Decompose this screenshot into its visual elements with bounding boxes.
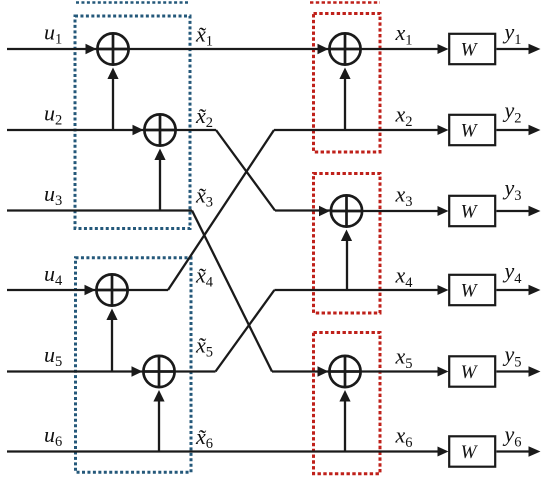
svg-text:W: W [461,121,479,142]
wire row2 W box to output y2 [496,129,530,131]
wire row5 W box to output y5 [496,370,530,372]
svg-text:W: W [461,202,479,223]
up arrowhead riser U4 [153,390,164,402]
up arrowhead riser U3 [106,309,117,321]
wire x~4 diagonal row4 to row2 [168,130,274,290]
svg-text:W: W [461,40,479,61]
riser row2 to XOR U1 [112,79,114,130]
channel box W4 [449,275,495,305]
wire row3 u3 under risers to bend [7,209,192,211]
riser row3 to XOR U2 [159,160,161,211]
arrowhead output y1 [529,44,541,54]
svg-text:W: W [461,281,479,302]
XOR U2 (u2+u3) [144,114,175,145]
wire row4 W box to output y4 [496,289,530,291]
arrowhead into W1 [438,44,449,54]
arrowhead into XOR U2 [133,125,144,136]
wire row6 u6 full to W box (x6) [7,450,438,452]
wire row2 right x2 to W box [274,129,438,131]
wire row4 u4 to XOR U3 [7,289,97,291]
wire row2 u2 to XOR U2 [7,129,145,131]
blue dotted box (encoder block 2, rows u4-u6) [76,258,192,473]
XOR R2 (x~2+x~5) [331,195,362,226]
wire x~3 diagonal row3 to row5 [192,211,272,372]
svg-text:W: W [461,442,479,463]
channel box W1 [449,34,495,64]
wire row5 XOR U4 to bend (x~5 horizontal) [159,370,216,372]
cropped dotted remnant red (top) [310,1,380,4]
channel box W3 [449,196,495,226]
riser row6 to XOR R3 [344,401,346,452]
wire row4 right x4 to W box [274,289,438,291]
up arrowhead riser R1 [339,68,350,80]
riser row5 to XOR U3 [111,320,113,372]
wire row5 u5 to XOR U4 [7,370,144,372]
red dotted box (combiner block 1, rows 1-2) [314,14,381,153]
wire x~2 diagonal row2 to row3 [216,130,275,211]
up arrowhead riser U1 [107,68,118,80]
arrowhead output y2 [529,125,541,135]
arrowhead into XOR R1 [318,44,329,55]
channel box W5 [449,356,495,386]
channel box W6 [449,436,495,466]
wire row1 XOR R1 to W box (x1) [345,48,438,50]
arrowhead into W4 [438,285,449,295]
arrowhead into W6 [438,447,449,457]
XOR R1 (x~1+x~4) [329,33,360,64]
wire row3 W box to output y3 [496,210,530,212]
riser row4 to XOR R2 [346,241,348,290]
wire row3 right XOR R2 to W box (x3) [346,210,438,212]
wire row6 W box to output y6 [496,450,530,452]
arrowhead into W2 [438,125,449,135]
arrowhead into XOR R3 [318,366,329,377]
wire x~5 diagonal row5 to row4 [216,290,275,372]
cropped dotted remnant blue (top) [76,1,190,4]
blue dotted box (encoder block 1, rows u1-u3) [75,16,190,229]
arrowhead into XOR U4 [132,366,143,377]
riser row2 to XOR R1 [344,79,346,130]
arrowhead into XOR U1 [86,44,97,55]
wire row1 u1 to XOR U1 [7,48,98,50]
arrowhead output y3 [529,206,541,216]
arrowhead output y5 [529,366,541,376]
up arrowhead riser R2 [341,230,352,242]
arrowhead into W5 [438,367,449,377]
wire row4 XOR U3 to bend (x~4 horizontal) [112,289,168,291]
channel box W2 [449,115,495,145]
XOR U4 (u5+u6) [143,356,174,387]
red dotted box (combiner block 3, rows 5-6) [314,333,381,474]
wire row1 XOR U1 to XOR R1 (x~1) [113,48,330,50]
arrowhead output y6 [529,446,541,456]
XOR U3 (u4+u5) [96,274,127,305]
wire row1 W box to output y1 [496,48,530,50]
up arrowhead riser R3 [339,390,350,402]
wire x~2 horizontal into XOR R2 [275,209,331,211]
wire row5 right XOR R3 to W box (x5) [345,370,438,372]
arrowhead output y4 [529,285,541,295]
wire x~3 horizontal into XOR R3 [272,370,330,372]
red dotted box (combiner block 2, rows 3-4) [314,174,381,314]
arrowhead into XOR R2 [319,206,330,217]
riser row6 to XOR U4 [158,401,160,452]
XOR U1 (u1+u2) [97,33,128,64]
svg-text:W: W [461,362,479,383]
arrowhead into W3 [438,206,449,216]
up arrowhead riser U2 [154,149,165,161]
wire row2 XOR U2 to bend (x~2 horizontal) [160,129,216,131]
arrowhead into XOR U3 [85,285,96,296]
XOR R3 (x~3+x~6) [329,356,360,387]
